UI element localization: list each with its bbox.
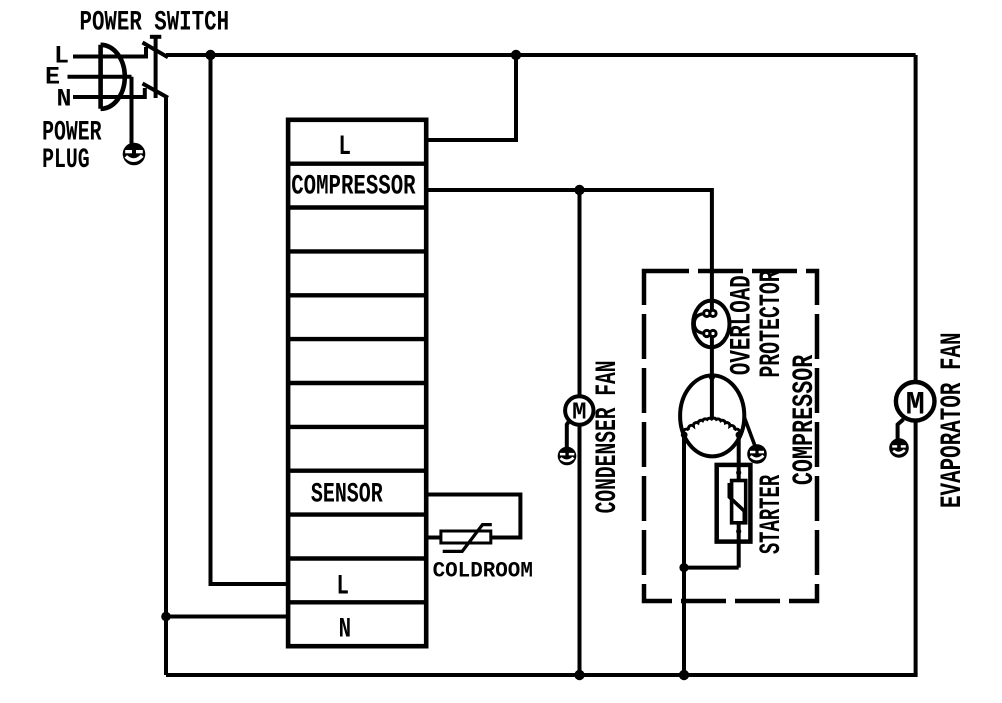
ground (power plug earth) [123, 143, 146, 166]
wire motor right to starter [737, 435, 741, 466]
wire overload to motor [710, 347, 714, 378]
wire L-row branch [426, 55, 516, 140]
svg-text:COMPRESSOR: COMPRESSOR [291, 171, 415, 203]
wire L branch down-left [211, 55, 289, 584]
svg-text:N: N [339, 614, 351, 646]
node junction bus compressor [679, 670, 689, 680]
svg-text:CONDENSER FAN: CONDENSER FAN [590, 360, 624, 513]
svg-text:PROTECTOR: PROTECTOR [754, 270, 788, 378]
wire E pin [68, 75, 132, 79]
svg-text:L: L [336, 571, 348, 603]
label STARTER (vertical) [754, 474, 789, 554]
svg-text:M: M [906, 386, 925, 423]
svg-text:COMPRESSOR: COMPRESSOR [787, 354, 821, 485]
wire N pole down [166, 98, 168, 675]
power switch pole 1 (L) [119, 43, 168, 59]
ground (condenser fan) [558, 447, 577, 466]
ground (compressor) [747, 444, 767, 464]
ground (evaporator fan) [889, 438, 909, 458]
wire starter bottom link [684, 566, 739, 570]
dashed box (compressor unit) [644, 271, 817, 601]
power switch pole 2 (N) [119, 84, 168, 100]
wire thermistor left lead [426, 536, 442, 540]
svg-text:L: L [338, 131, 350, 163]
label CONDENSER FAN (vertical) [590, 360, 624, 513]
node junction top L-row [511, 50, 521, 60]
label COMPRESSOR (vertical) [787, 354, 821, 485]
node junction top-left [205, 50, 215, 60]
svg-text:POWER SWITCH: POWER SWITCH [80, 7, 230, 39]
wire bottom bus [166, 673, 918, 677]
wire top bus L: switch to top-right corner [166, 53, 916, 57]
wire evaporator ground stem [898, 419, 904, 440]
svg-text:M: M [572, 399, 586, 426]
wire compressor ground stem [744, 417, 755, 446]
wire N pin [73, 95, 119, 99]
node junction N branch [161, 612, 171, 622]
overload protector [693, 300, 729, 348]
node junction starter bottom T [679, 563, 688, 572]
svg-text:N: N [57, 85, 72, 114]
thermistor COLDROOM body [441, 525, 492, 552]
svg-text:STARTER: STARTER [754, 474, 789, 554]
svg-text:EVAPORATOR FAN: EVAPORATOR FAN [935, 332, 970, 508]
wire starter bottom stub [737, 541, 741, 568]
wire condenser fan drop [578, 190, 582, 397]
wire sensor row loop [426, 495, 520, 538]
svg-text:COLDROOM: COLDROOM [433, 559, 533, 584]
svg-text:PLUG: PLUG [42, 145, 90, 176]
wire E down to ground [130, 77, 134, 144]
wire compressor row to overload [426, 190, 712, 301]
label OVERLOAD (vertical) [725, 275, 759, 375]
starter box [717, 465, 751, 542]
label PROTECTOR (vertical) [754, 270, 788, 378]
label EVAPORATOR FAN (vertical) [935, 332, 970, 508]
node junction condenser branch [574, 185, 584, 195]
terminal block [288, 120, 426, 646]
motor condenser fan M [565, 396, 593, 426]
node junction bus condenser [574, 670, 584, 680]
power plug body [101, 45, 125, 109]
wire evaporator drop (right) [914, 55, 918, 384]
wire L pin [73, 55, 119, 59]
wire condenser fan ground stem [567, 420, 570, 448]
wire N branch to block [166, 615, 288, 619]
motor evaporator fan M [896, 382, 935, 423]
wire motor left down to bus [682, 435, 686, 675]
svg-text:POWER: POWER [42, 118, 102, 149]
motor compressor [680, 374, 744, 457]
switch link bar [150, 37, 161, 98]
svg-text:SENSOR: SENSOR [311, 479, 383, 510]
